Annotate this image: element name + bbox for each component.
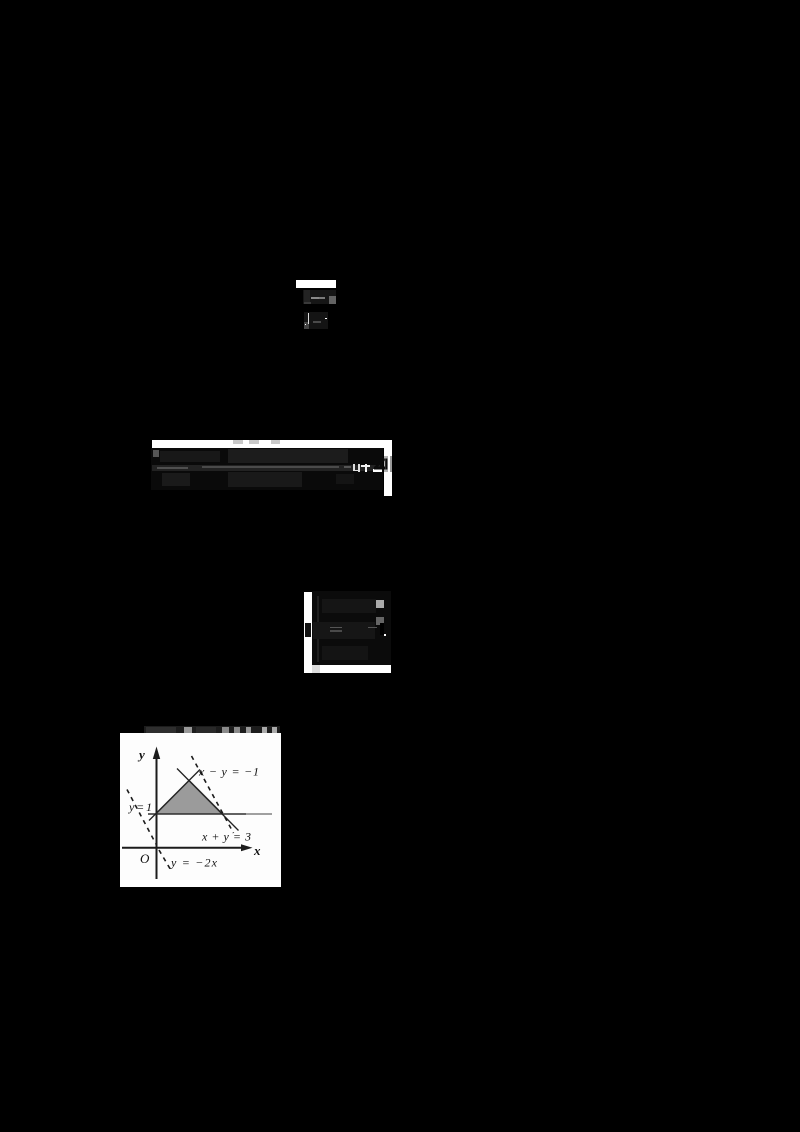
x axis (122, 847, 244, 849)
line x+y=3 (177, 769, 239, 831)
white wedge under glyph 2 (373, 469, 381, 472)
line x-y=-1 (149, 770, 200, 821)
left gray square (153, 450, 159, 457)
numerator smudges (160, 451, 220, 462)
denominator smudges (162, 473, 190, 486)
svg-text:y: y (137, 747, 145, 762)
brace (317, 596, 320, 662)
dark base (151, 448, 383, 490)
bold dark "1" (380, 623, 385, 635)
dashed line y=-2x lower (159, 850, 171, 870)
gray bars inside strip (384, 456, 387, 472)
dark base (312, 591, 391, 665)
white top band (152, 440, 392, 449)
black glyph 2 overlapping strip (372, 457, 388, 472)
y axis (156, 757, 158, 879)
svg-text:x: x (253, 843, 261, 858)
gray patches right (376, 600, 384, 608)
block A: fraction row (303, 290, 336, 304)
svg-text:y = 1: y = 1 (128, 800, 152, 814)
svg-text:O: O (140, 851, 150, 866)
svg-text:x + y = 3: x + y = 3 (201, 830, 251, 844)
block B: bracket row (304, 312, 328, 329)
white bottom strip (312, 665, 391, 673)
row smudges (322, 599, 376, 613)
white right strip (384, 448, 392, 496)
small gray notches on band (233, 440, 243, 444)
fraction bar band (152, 465, 380, 471)
shaded triangle (157, 781, 224, 815)
svg-text:x − y = −1: x − y = −1 (198, 765, 259, 779)
dashed line through apex (192, 756, 234, 833)
equals dashes (330, 627, 342, 629)
white glyph "+" (361, 465, 371, 467)
brace tip marks on white strip (305, 623, 311, 637)
white left strip (304, 592, 313, 674)
dashed line y=-2x upper (127, 790, 157, 846)
y=1 line (148, 813, 246, 815)
white glyph "u" (353, 464, 355, 471)
